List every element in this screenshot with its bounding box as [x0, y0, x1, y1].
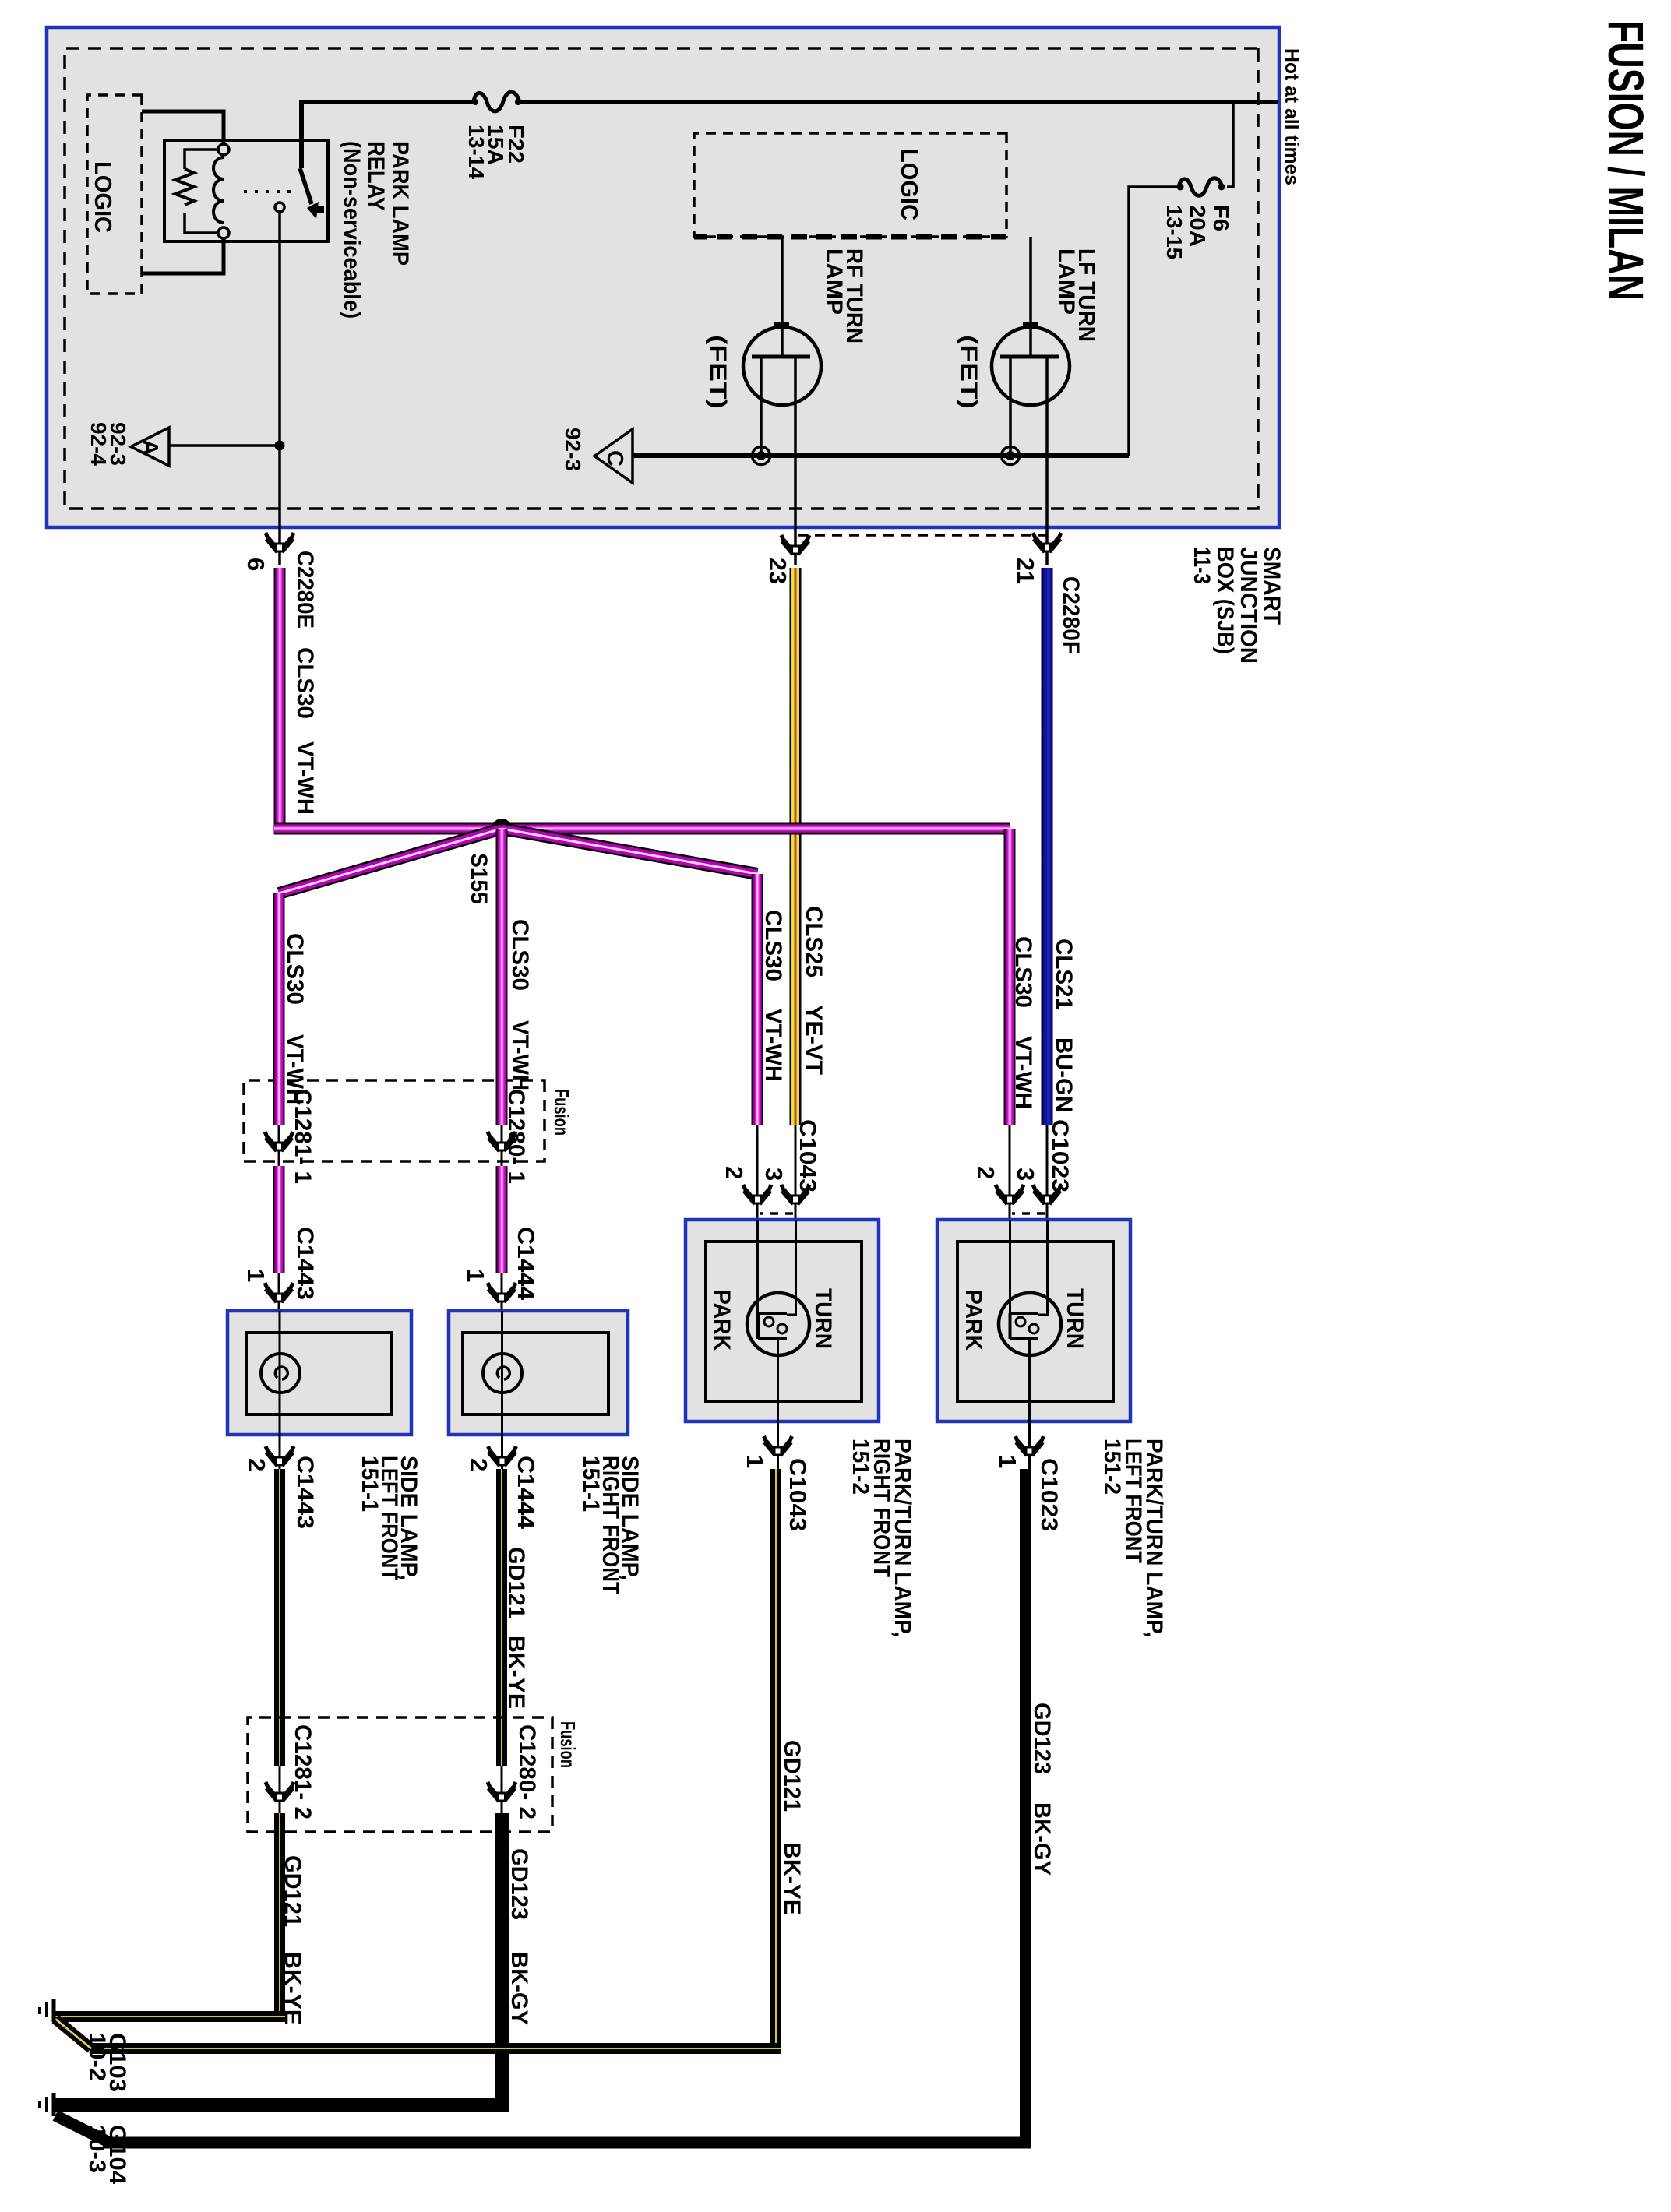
C1043 dashed pair bracket [760, 1212, 793, 1215]
label RF TURN LAMP [821, 248, 867, 343]
svg-text:GD121: GD121 [280, 1855, 305, 1927]
svg-text:S155: S155 [466, 853, 492, 904]
connector C1023 pin 2 arrow [972, 1125, 1024, 1220]
lamp PARK/TURN LAMP LEFT FRONT (C1023) [937, 1220, 1130, 1421]
svg-text:TURN: TURN [810, 1288, 836, 1349]
label C2280E CLS30 VT-WH [292, 551, 318, 815]
label PARK/TURN LAMP, RIGHT FRONT 151-2 [848, 1439, 915, 1637]
wire splice diagonal to C1043 park branch [502, 829, 757, 874]
wire relay switch output to pin 6 [278, 212, 281, 527]
C1023 dashed pair bracket [1012, 1212, 1045, 1215]
bulb (C1444 side lamp) [483, 1311, 522, 1435]
svg-text:CLS30: CLS30 [282, 933, 308, 1005]
svg-text:GD123: GD123 [506, 1848, 532, 1920]
splice S155 [466, 819, 512, 904]
svg-text:1: 1 [742, 1455, 769, 1468]
label PARK LAMP RELAY (Non-serviceable) [339, 141, 413, 319]
svg-text:Hot at all times: Hot at all times [1281, 48, 1303, 185]
svg-text:21: 21 [1012, 558, 1039, 584]
logic box LOGIC1 (relay driver) [87, 95, 142, 294]
svg-text:BK-GY: BK-GY [506, 1952, 532, 2025]
svg-text:VT-WH: VT-WH [760, 1009, 786, 1082]
label (FET) RF [705, 335, 731, 409]
connector C1281-2 arrow [266, 1724, 316, 1819]
svg-text:Fusion: Fusion [550, 1089, 573, 1136]
fuse F6 [1177, 178, 1225, 196]
svg-text:C1281- 1: C1281- 1 [290, 1089, 316, 1184]
lamp PARK/TURN LAMP RIGHT FRONT (C1043) [686, 1220, 879, 1421]
svg-text:BK-GY: BK-GY [1029, 1802, 1055, 1876]
label Hot at all times [1281, 48, 1303, 185]
connector C2280 pin 6 exit [242, 527, 294, 571]
svg-text:C: C [602, 450, 627, 467]
label C1023 (connector) [1047, 1119, 1073, 1192]
label CLS21 BU-GN [1051, 939, 1077, 1112]
svg-text:LOGIC: LOGIC [896, 149, 923, 220]
connector C1023 pin 1 exit [994, 1355, 1062, 1531]
svg-text:6: 6 [242, 558, 270, 571]
svg-text:CLS21: CLS21 [1051, 939, 1077, 1010]
bulb (LF park/turn dual filament) [999, 1220, 1061, 1355]
connector C1043 pin 2 arrow [721, 1125, 771, 1220]
svg-text:C1043: C1043 [795, 1119, 820, 1192]
label SIDE LAMP, LEFT FRONT 151-1 [357, 1456, 421, 1580]
bulb (RF park/turn dual filament) [747, 1220, 809, 1355]
svg-text:PARK: PARK [961, 1290, 986, 1351]
title FUSION / MILAN [1598, 20, 1654, 301]
svg-text:151-2: 151-2 [848, 1439, 873, 1495]
label LF TURN LAMP [1053, 248, 1099, 342]
svg-text:BK-YE: BK-YE [779, 1842, 805, 1915]
svg-text:92-3: 92-3 [561, 428, 585, 471]
connector C1444 pin 1 arrow [462, 1227, 538, 1311]
label CLS30 VT-WH (C1281-1 branch) [282, 933, 308, 1104]
wire F6 feed from hot bus [1129, 102, 1233, 456]
connector C1444 pin 2 exit [465, 1435, 538, 1529]
svg-text:BK-YE: BK-YE [280, 1952, 305, 2025]
svg-text:2: 2 [972, 1166, 999, 1179]
off-page reference triangle A [131, 428, 169, 466]
C2280 connector dashed bracket [795, 534, 1048, 537]
wire CLS25 YE-VT from pin 23 [790, 568, 802, 1125]
wire GD121 BK-YE (C1043 to G103) [55, 1469, 781, 2054]
ground G103 [40, 1999, 130, 2092]
transistor Q2 FET (LF turn lamp driver) [992, 237, 1070, 527]
svg-text:TURN: TURN [1062, 1288, 1088, 1349]
svg-text:151-1: 151-1 [578, 1456, 604, 1512]
label C1043 (connector) [795, 1119, 820, 1192]
svg-text:(Non-serviceable): (Non-serviceable) [339, 141, 365, 319]
svg-text:A: A [137, 439, 162, 456]
label (FET) LF [956, 335, 982, 409]
wire GD121 BK-YE (fusion to G103) [55, 1813, 285, 2022]
label F22 15A 13-14 [464, 125, 528, 179]
fusion inline connector box 2 [248, 1717, 580, 1832]
svg-text:3: 3 [1012, 1168, 1039, 1181]
svg-text:LOGIC: LOGIC [90, 161, 117, 233]
svg-text:151-1: 151-1 [357, 1456, 382, 1512]
svg-text:BU-GN: BU-GN [1051, 1037, 1077, 1112]
label SIDE LAMP, RIGHT FRONT 151-1 [578, 1456, 643, 1594]
svg-text:LAMP: LAMP [821, 248, 847, 315]
wire GD121 BK-YE (C1443 to fusion box 2) [274, 1469, 285, 1766]
svg-text:C1023: C1023 [1036, 1458, 1062, 1531]
label GD121 BK-YE (C1043 row) [779, 1740, 805, 1915]
svg-text:BOX (SJB): BOX (SJB) [1212, 547, 1238, 654]
svg-text:C2280F: C2280F [1058, 576, 1084, 654]
label CLS30 VT-WH (RF park) [760, 910, 786, 1082]
svg-text:C2280E: C2280E [292, 551, 318, 629]
relay coil [213, 144, 229, 238]
label GD121 BK-YE (C1443 row after fusion) [280, 1855, 305, 2025]
svg-text:10-3: 10-3 [84, 2125, 110, 2173]
bus from fuse F6 to FET sources [633, 453, 1129, 458]
connector C1280-1 arrow [488, 1089, 529, 1184]
svg-text:(FET): (FET) [705, 335, 731, 409]
off-page reference triangle C [594, 429, 633, 483]
svg-text:10-2: 10-2 [84, 2033, 110, 2081]
svg-text:YE-VT: YE-VT [801, 1005, 827, 1075]
transistor Q1 FET (RF turn lamp driver) [743, 237, 821, 527]
wire relay coil to logic right [142, 238, 224, 273]
svg-text:Fusion: Fusion [556, 1721, 580, 1768]
wire VT-WH stub to C1444 [496, 1166, 508, 1273]
relay K1 PARK LAMP RELAY [164, 140, 328, 241]
wire C1281-1 branch horizontal [273, 893, 285, 1125]
wire GD121 BK-YE (C1444 to fusion) [496, 1469, 507, 1766]
connector C1280-2 arrow [488, 1724, 540, 1819]
svg-text:VT-WH: VT-WH [1010, 1036, 1036, 1109]
wire GD123 BK-GY (C1023 to G104) [55, 1469, 1031, 2149]
lamp SIDE LAMP LEFT FRONT (C1443) [227, 1311, 411, 1435]
svg-text:92-4: 92-4 [86, 422, 111, 466]
svg-text:1: 1 [994, 1455, 1021, 1468]
ground G104 [40, 2093, 130, 2184]
svg-text:PARK: PARK [709, 1290, 735, 1351]
svg-text:23: 23 [764, 558, 791, 584]
svg-text:GD123: GD123 [1029, 1703, 1055, 1774]
bulb (C1443 side lamp) [261, 1311, 300, 1435]
wire GD123 BK-GY (fusion to G104) [55, 1813, 509, 2112]
node FET LF source junction [1002, 447, 1020, 465]
connector C1443 pin 1 arrow [242, 1227, 318, 1311]
logic box LOGIC2 (FET drivers) [694, 133, 1006, 237]
wire splice diagonal to C1281-1 branch [279, 829, 502, 893]
wire CLS21 BU-GN from pin 21 [1042, 568, 1053, 1125]
svg-text:11-3: 11-3 [1189, 547, 1214, 584]
svg-text:CLS30: CLS30 [292, 647, 318, 719]
label CLS30 VT-WH (LF park) [1010, 936, 1036, 1109]
svg-text:C1443: C1443 [292, 1456, 318, 1529]
svg-text:RELAY: RELAY [363, 141, 389, 211]
connector C1043 pin 1 exit [742, 1355, 810, 1531]
fuse F22 [472, 92, 521, 111]
connector C1023 pin 3 arrow [1012, 1125, 1061, 1220]
svg-text:LAMP: LAMP [1053, 248, 1079, 315]
connector C1443 pin 2 exit [243, 1435, 318, 1529]
svg-text:CLS30: CLS30 [1010, 936, 1036, 1008]
svg-text:C1444: C1444 [513, 1227, 538, 1300]
svg-text:2: 2 [465, 1458, 492, 1471]
svg-text:F6: F6 [1209, 205, 1233, 231]
svg-text:VT-WH: VT-WH [507, 1020, 533, 1090]
relay actuation dotted line [240, 190, 291, 193]
label F6 20A 13-15 [1162, 205, 1233, 259]
label PARK/TURN LAMP, LEFT FRONT 151-2 [1099, 1439, 1167, 1637]
svg-text:CLS25: CLS25 [801, 906, 827, 977]
svg-text:(FET): (FET) [956, 335, 982, 409]
label CLS30 VT-WH (C1280-1 branch) [507, 919, 533, 1090]
wire CLS30 VT-WH from pin 6 [274, 568, 1016, 1125]
lamp SIDE LAMP RIGHT FRONT (C1444) [449, 1311, 628, 1435]
svg-text:1: 1 [242, 1269, 270, 1282]
node FET RF source junction [753, 447, 770, 465]
svg-text:1: 1 [462, 1269, 489, 1282]
svg-text:JUNCTION: JUNCTION [1236, 547, 1261, 664]
svg-text:FUSION / MILAN: FUSION / MILAN [1598, 20, 1654, 301]
wire CLS30 VT-WH splice to C1280-1 [496, 829, 508, 1125]
label C2280F [1058, 576, 1084, 654]
svg-text:C1443: C1443 [292, 1227, 318, 1300]
svg-text:151-2: 151-2 [1099, 1439, 1125, 1495]
fusion inline connector box 1 [244, 1080, 573, 1161]
svg-text:2: 2 [243, 1458, 270, 1471]
svg-text:13-15: 13-15 [1162, 205, 1186, 259]
wire VT-WH stub to C1443 [273, 1166, 285, 1273]
wire hot bus vertical [299, 102, 1278, 168]
label 92-3 (triangle C) [561, 428, 585, 471]
svg-text:2: 2 [721, 1166, 748, 1179]
svg-text:C1444: C1444 [513, 1456, 538, 1529]
svg-text:CLS30: CLS30 [507, 919, 533, 991]
svg-text:C1280- 2: C1280- 2 [514, 1724, 540, 1819]
svg-text:GD121: GD121 [503, 1547, 529, 1618]
label SMART JUNCTION BOX (SJB) 11-3 [1189, 547, 1285, 664]
svg-text:C1281- 2: C1281- 2 [290, 1724, 316, 1819]
svg-text:BK-YE: BK-YE [503, 1636, 529, 1709]
svg-text:VT-WH: VT-WH [292, 741, 318, 815]
svg-text:SMART: SMART [1259, 547, 1285, 625]
svg-text:CLS30: CLS30 [760, 910, 786, 981]
label CLS25 YE-VT [801, 906, 827, 1075]
svg-text:GD121: GD121 [779, 1740, 805, 1812]
connector C2280 pin 23 exit [764, 527, 809, 584]
svg-text:20A: 20A [1186, 205, 1210, 247]
wire junction down to off-page triangle A [169, 444, 280, 447]
label GD123 BK-GY (C1023 row) [1029, 1703, 1055, 1876]
wire CLS30 VT-WH to C1023 pin 2 (park LF) [1004, 1119, 1016, 1125]
label GD121 BK-YE (C1444 row) [503, 1547, 529, 1709]
wire logic to relay coil left [142, 111, 224, 144]
node junction on switch output [275, 441, 285, 451]
svg-text:PARK LAMP: PARK LAMP [387, 141, 413, 266]
relay switch [275, 168, 324, 219]
connector C1043 pin 3 arrow [760, 1125, 809, 1220]
svg-text:3: 3 [760, 1168, 788, 1181]
wire CLS30 VT-WH to C1043 pin 2 (park RF) [752, 874, 763, 1125]
svg-text:C1023: C1023 [1047, 1119, 1073, 1192]
svg-text:13-14: 13-14 [464, 125, 488, 179]
svg-text:C1043: C1043 [784, 1458, 810, 1531]
smart junction box SJB outline [47, 27, 1279, 527]
label GD123 BK-GY (C1444 row after fusion) [506, 1848, 532, 2025]
resistor (relay suppression) [175, 150, 218, 233]
connector C2280 pin 21 exit [1012, 527, 1061, 584]
label 92-3 92-4 (triangle A) [86, 422, 130, 466]
connector C1281-1 arrow [265, 1089, 316, 1184]
